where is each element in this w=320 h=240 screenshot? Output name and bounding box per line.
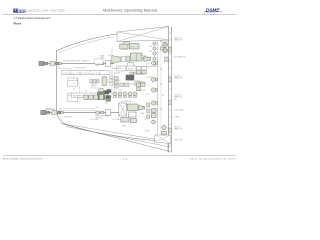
hull upper edge curve <box>57 27 169 51</box>
center text block <box>91 83 98 90</box>
cluster boxes below grating <box>99 81 145 94</box>
upper small white box <box>95 59 103 64</box>
svg-text:1 - 8: 1 - 8 <box>123 159 128 161</box>
pump column small circles upper <box>153 42 156 65</box>
small boxes right of boiler <box>110 76 118 88</box>
inner bulkhead vertical <box>157 41 159 143</box>
upper gearbox <box>106 56 121 67</box>
aux boiler capsule <box>102 77 107 86</box>
wall connector line <box>58 68 73 70</box>
bottom tank band mid diagonal <box>66 127 171 148</box>
small boxes under casing <box>142 34 150 37</box>
stair box lower left wall <box>68 93 78 101</box>
small boxes row center-left <box>90 80 99 83</box>
turbo generator circles <box>162 42 167 53</box>
purifier circle row <box>113 92 137 98</box>
second inner bulkhead vertical <box>160 44 162 135</box>
hull lower edge curve <box>57 112 171 142</box>
knutsen logo text <box>19 8 28 13</box>
forward bulkhead outer vertical <box>168 27 170 153</box>
right side labels <box>175 38 187 142</box>
ladder at bulkhead top <box>161 31 168 43</box>
hull upper inner deck line <box>59 37 115 53</box>
upper propulsion motor <box>122 53 151 67</box>
knutsen logo underline <box>13 11 25 14</box>
DSME logo <box>204 7 223 12</box>
workshop rooms top <box>117 57 158 71</box>
bottom tank band bottom edge <box>61 124 171 152</box>
knutsen logo flag <box>13 9 18 13</box>
small column boxes x147 <box>147 103 150 119</box>
footer rule <box>0 0 239 170</box>
heat exchanger circles mid column <box>151 61 166 135</box>
casing wall vertical 2 <box>113 70 115 92</box>
dark purifier cluster <box>98 90 112 102</box>
bulkhead mounted small boxes <box>161 47 172 133</box>
forward bulkhead inner vertical <box>171 27 173 153</box>
misc tiny labels center <box>46 41 164 128</box>
lower propulsion motor <box>121 104 145 123</box>
upper shaft line <box>39 63 114 65</box>
economizer blocks <box>120 42 139 49</box>
top casing X parallelogram <box>117 27 168 42</box>
lower shaft coupling boxes <box>41 110 104 114</box>
lower shaft guard box <box>60 108 94 110</box>
bottom tank band chord line <box>61 124 171 142</box>
hull left transom vertical <box>56 51 58 112</box>
upper long walkway box <box>62 71 110 75</box>
dark grating block <box>126 75 134 80</box>
purifier row <box>84 95 104 100</box>
svg-text:MD No: 2007033 / Final Draft (: MD No: 2007033 / Final Draft (2010.02.19… <box>3 158 43 161</box>
bulkhead frame ticks <box>169 33 172 145</box>
header rule <box>3 13 237 16</box>
small box row above grating <box>130 72 145 74</box>
lower shaft line <box>41 112 120 114</box>
upper shaft coupling boxes <box>39 61 104 65</box>
lower gearbox <box>106 103 127 116</box>
casing wall vertical <box>111 47 113 98</box>
bottom right inner vertical <box>167 135 169 152</box>
casing curve line <box>79 79 81 103</box>
lower area labels <box>45 109 150 133</box>
lower long walkway box <box>72 93 108 98</box>
svg-text:Part 1. Design Concept of the: Part 1. Design Concept of the Vessel <box>190 158 236 161</box>
bottom right void box with X <box>155 135 171 144</box>
stair box upper left wall <box>68 78 78 86</box>
cluster boxes x136-148 <box>137 67 147 91</box>
